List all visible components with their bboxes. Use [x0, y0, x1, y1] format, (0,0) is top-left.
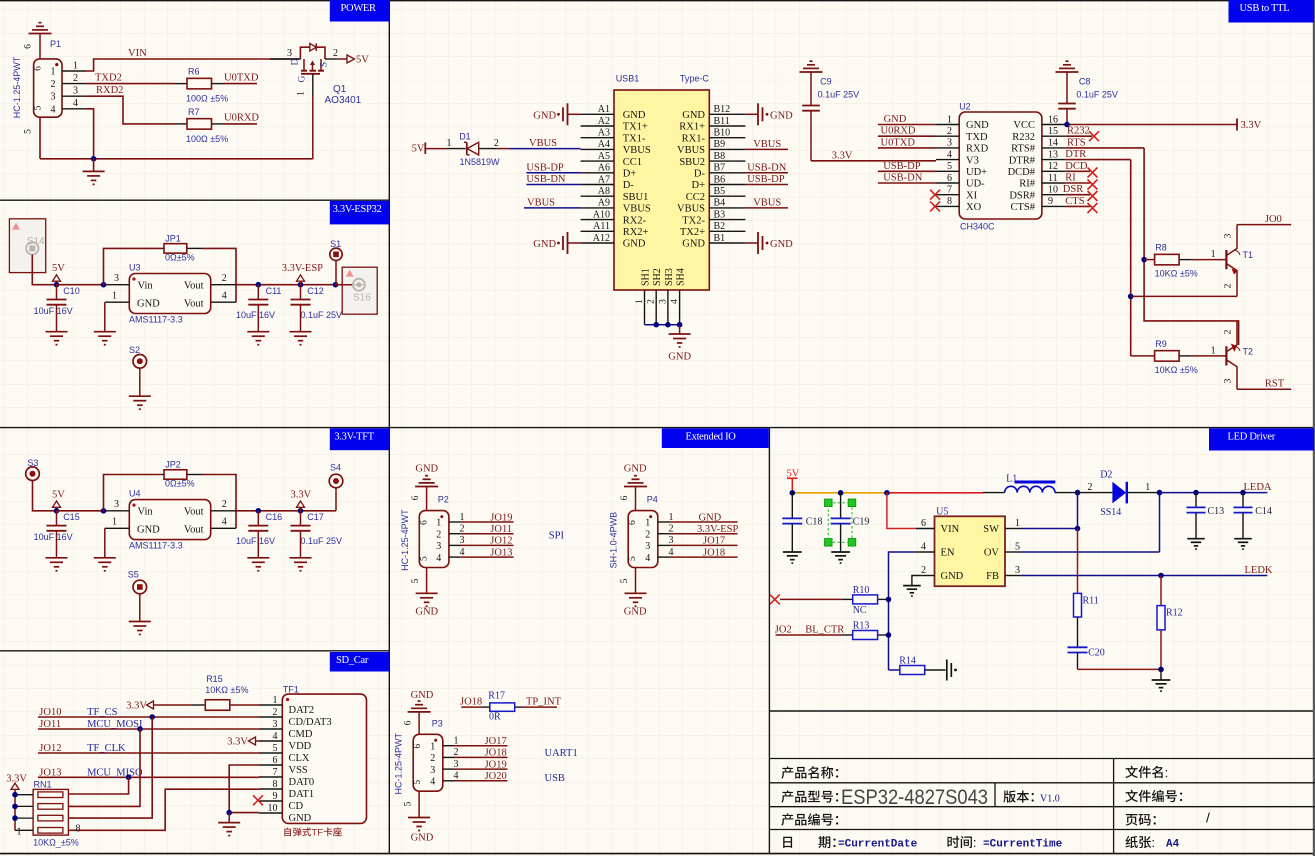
- svg-text:USB to TTL: USB to TTL: [1240, 3, 1290, 14]
- svg-text:OV: OV: [984, 548, 1000, 559]
- svg-text:U3: U3: [129, 262, 141, 272]
- svg-text:TF_CLK: TF_CLK: [87, 743, 126, 754]
- junction C17: [298, 508, 304, 514]
- svg-text:GND: GND: [137, 525, 160, 536]
- net label JO12: [39, 743, 61, 754]
- net label USB-DN (A7): [526, 174, 566, 185]
- no-connect X at U2 XO: [930, 201, 940, 211]
- capacitor C19: [831, 493, 870, 552]
- svg-text:Vout: Vout: [184, 280, 204, 291]
- U5 GND pin to ground: [903, 576, 921, 597]
- svg-text:XI: XI: [966, 190, 978, 201]
- wire D2 to LEDA node: [1128, 492, 1160, 494]
- junction SW/R11: [1075, 526, 1081, 532]
- svg-text:C12: C12: [307, 286, 324, 296]
- net label BL_CTR: [805, 624, 844, 635]
- wire GND (U2 pin1): [878, 124, 936, 126]
- ground below C11: [247, 332, 269, 345]
- wire DTR vertical: [1130, 160, 1132, 356]
- svg-text:Extended IO: Extended IO: [686, 431, 737, 442]
- svg-text:3.3V: 3.3V: [832, 150, 853, 161]
- svg-text:USB-DP: USB-DP: [526, 162, 564, 173]
- net label JO19 (P2): [490, 512, 512, 523]
- D2 pin number 1: [1145, 482, 1150, 493]
- svg-text:U4: U4: [129, 488, 141, 498]
- svg-text:RST: RST: [1265, 379, 1285, 390]
- svg-text:6: 6: [34, 66, 44, 71]
- svg-text:6: 6: [947, 173, 952, 184]
- power port 5V (TFT reg): [52, 489, 65, 511]
- svg-text:GND: GND: [623, 239, 646, 250]
- svg-text:R9: R9: [1155, 339, 1167, 349]
- wire 5V to U4: [57, 510, 108, 512]
- svg-text:R8: R8: [1155, 243, 1167, 253]
- net label RTS: [1067, 137, 1086, 148]
- ground above P2: [411, 464, 439, 511]
- svg-text:S14: S14: [27, 236, 45, 247]
- wire 3.3V to U2 V3: [811, 160, 936, 162]
- svg-text:Vin: Vin: [138, 507, 154, 518]
- Q1 pin number 3: [287, 48, 292, 59]
- svg-text::: :: [1151, 835, 1155, 850]
- power port 3.3V (VCC): [1237, 119, 1262, 132]
- regulator U3 AMS1117-3.3: [129, 262, 211, 324]
- svg-text:1: 1: [635, 299, 645, 304]
- svg-text:4: 4: [436, 553, 441, 564]
- svg-text:USB: USB: [545, 773, 565, 784]
- net label GND (P4): [699, 512, 722, 523]
- svg-text:GND: GND: [137, 299, 160, 310]
- wire U0TXD: [224, 83, 258, 85]
- svg-text:5: 5: [413, 780, 423, 785]
- U3 pin 1: [105, 291, 130, 303]
- svg-text:D-: D-: [694, 169, 706, 180]
- inductor L1: [1005, 473, 1056, 492]
- svg-text:R14: R14: [899, 656, 916, 667]
- svg-text:FB: FB: [986, 571, 999, 582]
- svg-text:4: 4: [454, 771, 459, 782]
- net label JO12 (P2): [490, 536, 512, 547]
- svg-text:GND: GND: [682, 239, 705, 250]
- svg-text:V1.0: V1.0: [1040, 794, 1060, 805]
- resistor R11: [1074, 593, 1099, 617]
- svg-text:7: 7: [947, 185, 952, 196]
- svg-text:DTR#: DTR#: [1009, 155, 1036, 166]
- wire R12 top: [1160, 576, 1162, 606]
- junction EN/R13: [886, 632, 892, 638]
- svg-text:GND: GND: [884, 114, 907, 125]
- wire DCD (pin12): [1065, 170, 1090, 172]
- svg-text:0.1uF 25V: 0.1uF 25V: [818, 90, 860, 100]
- power ground GND at B12: [745, 103, 793, 125]
- svg-text:VBUS: VBUS: [623, 204, 651, 215]
- svg-text:4: 4: [921, 541, 926, 552]
- svg-text:6: 6: [413, 744, 423, 749]
- svg-text:P4: P4: [647, 495, 658, 505]
- svg-text:3: 3: [51, 92, 56, 103]
- ground at U3 GND: [94, 302, 116, 345]
- P2 pin stubs/wires: [449, 522, 514, 557]
- D2 pin number 2: [1088, 482, 1093, 493]
- svg-text:2: 2: [454, 747, 459, 758]
- wire U0TXD (U2 pin3): [878, 147, 936, 149]
- svg-text:BL_CTR: BL_CTR: [805, 624, 844, 635]
- svg-text:AO3401: AO3401: [325, 95, 362, 106]
- ground below C19: [831, 552, 850, 563]
- svg-text:A5: A5: [598, 151, 610, 162]
- svg-text:5: 5: [628, 556, 638, 561]
- svg-text:RX1+: RX1+: [679, 122, 705, 133]
- svg-text:0.1uF 25V: 0.1uF 25V: [301, 310, 343, 320]
- svg-text:VBUS: VBUS: [623, 145, 651, 156]
- svg-text:0Ω±5%: 0Ω±5%: [165, 479, 195, 489]
- svg-text:5V: 5V: [412, 144, 425, 155]
- svg-text:C15: C15: [63, 512, 80, 522]
- svg-text:GND: GND: [941, 571, 964, 582]
- junction 5V/VIN: [884, 490, 890, 496]
- RN1 pin 8 number: [76, 824, 81, 835]
- svg-text:0Ω±5%: 0Ω±5%: [165, 253, 195, 263]
- net label GND (U2): [884, 114, 907, 125]
- P1 pin stubs: [62, 71, 86, 109]
- wire R11 to C20: [1077, 617, 1079, 647]
- wire TF_CLK: [38, 752, 259, 754]
- section header 3.3V-TFT: [330, 428, 390, 450]
- junction SH4: [677, 322, 683, 328]
- svg-text:AMS1117-3.3: AMS1117-3.3: [129, 315, 183, 325]
- svg-text:1: 1: [454, 736, 459, 747]
- svg-text:10KΩ ±5%: 10KΩ ±5%: [205, 685, 248, 695]
- svg-text:4: 4: [670, 299, 680, 304]
- RN1 pin 1 number: [17, 827, 22, 838]
- resistor R8: [1144, 243, 1198, 279]
- wire DAT1 to RN1: [68, 789, 259, 830]
- svg-text:R7: R7: [188, 107, 200, 117]
- net label 3.3V-ESP (P4): [697, 524, 738, 535]
- svg-text:4: 4: [73, 98, 78, 109]
- svg-text:S2: S2: [129, 345, 140, 355]
- wire OV: [1021, 493, 1160, 552]
- wire MCU_MISO: [38, 776, 259, 778]
- svg-text:10uF 16V: 10uF 16V: [236, 310, 275, 320]
- svg-text:B3: B3: [714, 209, 726, 220]
- svg-text:SD_Car: SD_Car: [336, 655, 369, 666]
- svg-text:C11: C11: [266, 286, 282, 296]
- svg-text:AMS1117-3.3: AMS1117-3.3: [129, 541, 183, 551]
- svg-text:14: 14: [1048, 138, 1058, 149]
- svg-text:Vout: Vout: [184, 525, 204, 536]
- test point S2: [129, 345, 147, 396]
- svg-text:10uF 16V: 10uF 16V: [34, 306, 73, 316]
- wire USB-DP (B6): [745, 184, 788, 186]
- net label TF_CLK: [87, 743, 126, 754]
- svg-text:GND: GND: [699, 512, 722, 523]
- wire U0RXD: [224, 123, 258, 125]
- svg-text:SPI: SPI: [549, 531, 565, 542]
- svg-text:1: 1: [112, 291, 117, 302]
- svg-text:DAT0: DAT0: [289, 777, 315, 788]
- resistor R6: [175, 67, 229, 104]
- svg-text:5V: 5V: [52, 263, 65, 274]
- svg-text::: :: [973, 835, 977, 850]
- svg-text:TX1-: TX1-: [623, 133, 646, 144]
- wire DSR (pin10): [1065, 194, 1090, 196]
- junction S1: [333, 282, 339, 288]
- svg-text:U2: U2: [959, 102, 971, 112]
- D1 pin number 2: [494, 138, 499, 149]
- wire JP2 to output: [202, 475, 236, 529]
- svg-text:GND: GND: [289, 813, 312, 824]
- net label MCU_MISO: [87, 767, 143, 778]
- section header LED Driver: [1209, 428, 1314, 450]
- P4 pin stubs/wires: [658, 522, 738, 557]
- wire R8 to T1 base: [1191, 259, 1226, 261]
- P3 pin numbers: [454, 736, 459, 782]
- svg-text:JO18: JO18: [703, 547, 725, 558]
- svg-text:3: 3: [436, 541, 441, 552]
- svg-text:3.3V: 3.3V: [291, 489, 312, 500]
- ground below C10: [46, 332, 68, 345]
- svg-text:U0TXD: U0TXD: [881, 137, 916, 148]
- svg-text:3.3V: 3.3V: [1241, 120, 1262, 131]
- resistor R12: [1157, 606, 1183, 630]
- svg-text:12: 12: [1048, 161, 1058, 172]
- svg-text:3.3V: 3.3V: [227, 737, 248, 748]
- sheet symbol S14: [9, 219, 45, 273]
- svg-text:JO13: JO13: [39, 767, 61, 778]
- ground below S5: [129, 622, 151, 635]
- svg-text:GND: GND: [770, 111, 793, 122]
- svg-text:P1: P1: [50, 39, 61, 49]
- svg-text:U0TXD: U0TXD: [224, 72, 259, 83]
- svg-text:JO12: JO12: [490, 536, 512, 547]
- svg-text:EN: EN: [941, 548, 955, 559]
- svg-text:8: 8: [947, 196, 952, 207]
- label SPI: [549, 531, 565, 542]
- ground below C17: [290, 558, 312, 571]
- svg-text:10uF 16V: 10uF 16V: [236, 536, 275, 546]
- svg-text::: :: [1165, 765, 1169, 780]
- wire R232 (pin15): [1065, 135, 1092, 137]
- U5 right pin stubs: [1005, 529, 1021, 576]
- junction ground rail: [1158, 667, 1164, 673]
- svg-text:RXD2: RXD2: [96, 85, 123, 96]
- wire TXD2 P1 pin 2 to R6: [86, 83, 175, 85]
- wire S3 to 5V rail: [33, 481, 57, 511]
- svg-text:S16: S16: [353, 293, 371, 304]
- ground below P3: [404, 791, 434, 843]
- USB1 B-side pin numbers: [714, 104, 731, 244]
- svg-text:USB-DP: USB-DP: [747, 174, 785, 185]
- svg-text:5: 5: [411, 578, 421, 583]
- svg-text:DCD#: DCD#: [1008, 167, 1036, 178]
- svg-text:SH2: SH2: [652, 268, 663, 286]
- net label USB-DN (B7): [747, 162, 787, 173]
- svg-text:POWER: POWER: [341, 3, 377, 14]
- svg-text:10: 10: [1048, 185, 1058, 196]
- svg-text:TX1+: TX1+: [623, 122, 648, 133]
- svg-text:1: 1: [460, 512, 465, 523]
- svg-text:3.3V-ESP: 3.3V-ESP: [282, 263, 323, 274]
- ground below C18: [783, 552, 802, 563]
- svg-text:JO13: JO13: [490, 547, 512, 558]
- label UART1: [545, 748, 578, 759]
- svg-text:1: 1: [297, 91, 307, 96]
- P2 pin numbers: [460, 512, 465, 558]
- label TF socket (CJK): [284, 827, 341, 838]
- svg-text:TF_CS: TF_CS: [87, 707, 118, 718]
- svg-text:9: 9: [1048, 196, 1053, 207]
- junction TF_CS: [149, 714, 155, 720]
- connector P4 SH-1.0-4PWB: [609, 495, 658, 569]
- ground below S2: [129, 396, 151, 409]
- svg-text:1: 1: [645, 518, 650, 529]
- svg-text:CC1: CC1: [623, 157, 642, 168]
- svg-text:SBU2: SBU2: [679, 157, 705, 168]
- svg-text:GND: GND: [533, 239, 556, 250]
- net label JO13: [39, 767, 61, 778]
- title block row line 2: [769, 782, 1315, 784]
- net label LEDA: [1244, 482, 1272, 493]
- connector P2 HC-1.25-4PWT: [400, 495, 449, 571]
- svg-text:RI#: RI#: [1019, 179, 1036, 190]
- svg-text:6: 6: [620, 495, 630, 500]
- junction VCC/C8: [1064, 122, 1070, 128]
- svg-text:TXD: TXD: [966, 132, 988, 143]
- section divider vertical left column: [388, 0, 390, 854]
- wire RN1 row3 to TF_CS: [68, 717, 152, 818]
- svg-text:3: 3: [114, 499, 119, 510]
- svg-text:MCU_MOSI: MCU_MOSI: [87, 719, 143, 730]
- capacitor C20: [1068, 647, 1105, 669]
- svg-text:A4: A4: [598, 139, 610, 150]
- net label USB-DP (U2): [883, 161, 921, 172]
- net label U0TXD (U2): [881, 137, 916, 148]
- svg-text:C13: C13: [1208, 506, 1225, 517]
- capacitor C18: [782, 493, 822, 552]
- U4 pin 1: [105, 517, 130, 529]
- wire DTR (pin13): [1065, 159, 1130, 161]
- net label DCD: [1065, 161, 1088, 172]
- svg-text:A9: A9: [598, 198, 610, 209]
- ground above C9: [800, 61, 823, 72]
- svg-text:10uF 16V: 10uF 16V: [34, 532, 73, 542]
- net label VBUS (B9): [753, 139, 781, 150]
- svg-text:2: 2: [669, 524, 674, 535]
- capacitor C13: [1187, 493, 1225, 539]
- U5 left pin numbers: [921, 518, 926, 576]
- svg-text:Vin: Vin: [138, 280, 154, 291]
- svg-text:RX1-: RX1-: [682, 133, 706, 144]
- svg-text:USB1: USB1: [616, 74, 640, 84]
- U3 pin 3: [108, 273, 130, 285]
- svg-text:A12: A12: [593, 233, 610, 244]
- net label USB-DP (B6): [747, 174, 785, 185]
- transistor Q1 AO3401: [270, 43, 362, 106]
- R9 pin number 1: [1211, 345, 1216, 356]
- svg-text:JP1: JP1: [165, 234, 181, 244]
- net label JO17 (P4): [703, 536, 725, 547]
- svg-text:VBUS: VBUS: [677, 204, 705, 215]
- ground below C14: [1234, 539, 1252, 549]
- svg-text:DSR#: DSR#: [1009, 190, 1035, 201]
- transistor T2: [1224, 321, 1254, 389]
- capacitor C12: [291, 285, 343, 332]
- svg-text:4: 4: [645, 553, 650, 564]
- svg-text:GND: GND: [624, 464, 647, 475]
- net label RST: [1265, 379, 1285, 390]
- title field page number: [1126, 810, 1210, 826]
- svg-text:5: 5: [419, 556, 429, 561]
- svg-text:RX2-: RX2-: [623, 215, 647, 226]
- wire GND pin10: [229, 812, 259, 814]
- section header USB to TTL: [1229, 0, 1314, 23]
- svg-text:JO19: JO19: [485, 759, 507, 770]
- svg-text:RTS: RTS: [1067, 137, 1086, 148]
- wire RN1 row1 to MCU_MISO: [68, 777, 128, 794]
- capacitor C8: [1058, 72, 1118, 125]
- USB1 A-side pin stubs: [581, 114, 614, 243]
- svg-text:JO18: JO18: [485, 748, 507, 759]
- P4 pin numbers: [669, 512, 674, 558]
- svg-text:3: 3: [1015, 565, 1020, 576]
- svg-text:CLX: CLX: [289, 753, 310, 764]
- wire U0RXD (U2 pin2): [878, 135, 936, 137]
- transistor T1: [1224, 225, 1254, 297]
- svg-text:6: 6: [411, 495, 421, 500]
- net label TF_CS: [87, 707, 118, 718]
- svg-text:1: 1: [947, 114, 952, 125]
- svg-text:DTR: DTR: [1065, 149, 1086, 160]
- sheet border bottom: [0, 853, 1315, 855]
- svg-text:TP_INT: TP_INT: [526, 696, 562, 707]
- wire CTS (pin9): [1065, 205, 1090, 207]
- svg-text:R11: R11: [1083, 596, 1099, 607]
- RN1 left pins: [15, 795, 33, 831]
- wire RTS (pin14): [1065, 147, 1144, 149]
- svg-text:2: 2: [436, 529, 441, 540]
- resistor network RN1: [33, 780, 79, 848]
- wire USB-DP (U2 pin5): [878, 170, 936, 172]
- svg-text:MCU_MISO: MCU_MISO: [87, 767, 143, 778]
- title field date: [783, 836, 917, 850]
- ground at P1 rail: [83, 159, 105, 185]
- svg-text:5: 5: [34, 105, 44, 110]
- svg-text:3: 3: [1224, 233, 1234, 238]
- svg-text:1N5819W: 1N5819W: [460, 157, 501, 167]
- svg-text:15: 15: [1048, 126, 1058, 137]
- svg-text:D+: D+: [691, 180, 705, 191]
- svg-text:A3: A3: [598, 128, 610, 139]
- svg-text:D2: D2: [1100, 469, 1112, 480]
- svg-text:C20: C20: [1088, 648, 1105, 659]
- svg-text:LEDA: LEDA: [1244, 482, 1272, 493]
- net label LEDK: [1245, 565, 1273, 576]
- wire R9 to T2 base: [1191, 355, 1226, 357]
- svg-text:B10: B10: [714, 128, 731, 139]
- svg-text:SH3: SH3: [664, 268, 675, 286]
- junction VSS/GND: [226, 810, 232, 816]
- net label TXD2: [95, 73, 122, 84]
- svg-text:GND: GND: [415, 607, 438, 618]
- svg-text:2: 2: [1088, 482, 1093, 493]
- jumper JP2: [162, 460, 202, 489]
- svg-text:U5: U5: [936, 506, 948, 517]
- sheet border top: [0, 0, 1315, 2]
- power port 5V (ESP32 reg): [52, 263, 65, 285]
- junction L1/SW: [1075, 490, 1081, 496]
- junction C12: [298, 282, 304, 288]
